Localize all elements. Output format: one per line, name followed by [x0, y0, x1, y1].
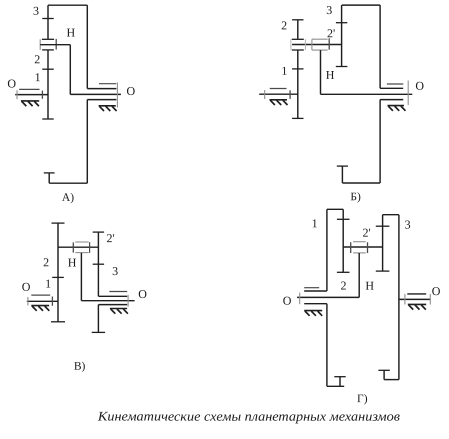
- svg-text:3: 3: [405, 217, 411, 231]
- svg-text:H: H: [365, 279, 374, 293]
- svg-text:2': 2': [327, 26, 335, 40]
- svg-text:O: O: [432, 284, 441, 298]
- svg-text:3: 3: [33, 4, 39, 18]
- svg-text:Кинематические схемы планетарн: Кинематические схемы планетарных механиз…: [97, 409, 400, 424]
- svg-text:2: 2: [43, 255, 49, 269]
- svg-text:А): А): [62, 192, 74, 204]
- svg-text:Г): Г): [357, 393, 368, 405]
- svg-text:2': 2': [106, 231, 114, 245]
- svg-text:1: 1: [312, 216, 318, 230]
- svg-text:O: O: [22, 280, 31, 294]
- svg-text:В): В): [74, 361, 86, 373]
- svg-text:1: 1: [35, 70, 41, 84]
- svg-text:2: 2: [341, 279, 347, 293]
- svg-text:Б): Б): [350, 191, 361, 203]
- svg-text:H: H: [66, 26, 75, 40]
- svg-text:1: 1: [281, 64, 287, 78]
- svg-text:3: 3: [326, 3, 332, 17]
- svg-text:O: O: [415, 79, 424, 93]
- svg-text:O: O: [283, 294, 292, 308]
- svg-text:O: O: [138, 287, 147, 301]
- svg-text:O: O: [127, 84, 136, 98]
- svg-text:1: 1: [45, 277, 51, 291]
- svg-text:2: 2: [281, 18, 287, 32]
- svg-text:O: O: [7, 76, 16, 90]
- svg-text:2: 2: [34, 52, 40, 66]
- svg-text:H: H: [326, 68, 335, 82]
- svg-text:H: H: [68, 256, 77, 270]
- svg-text:2': 2': [363, 226, 371, 240]
- svg-text:3: 3: [112, 264, 118, 278]
